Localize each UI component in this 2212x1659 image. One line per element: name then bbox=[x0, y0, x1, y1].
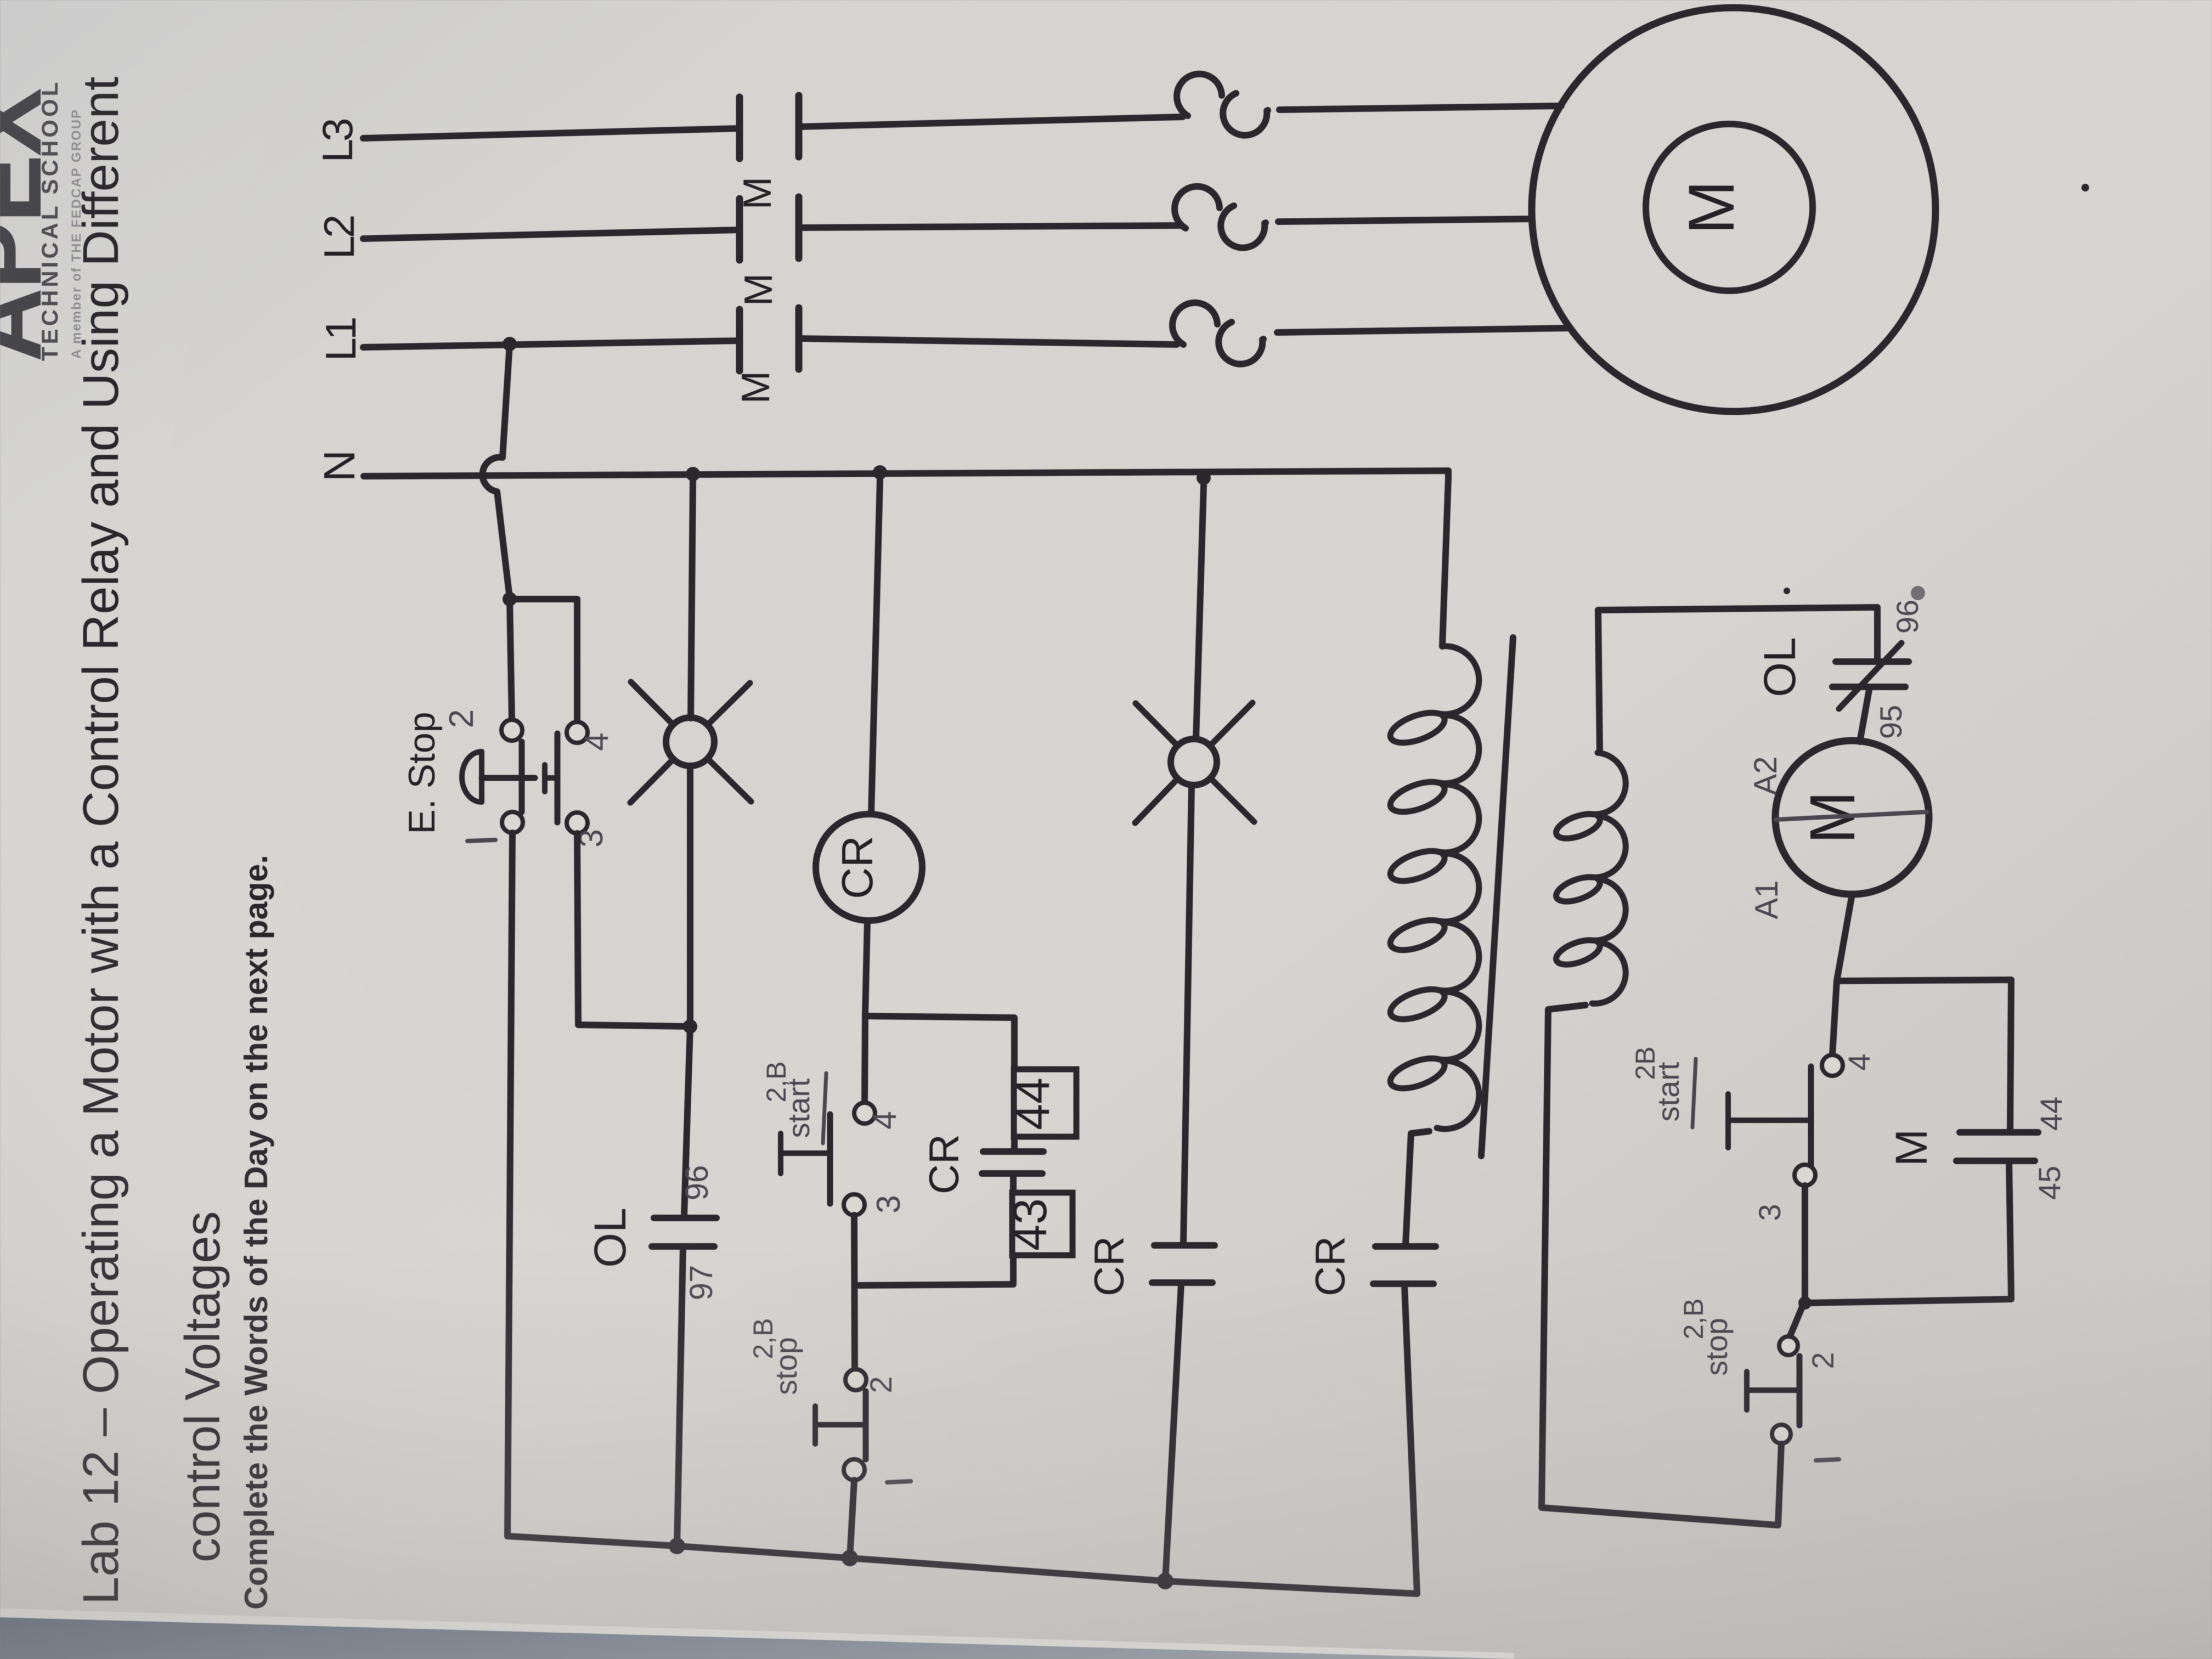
wire pilot2 to CR contact 2 bbox=[1183, 785, 1192, 1244]
motor M bbox=[1532, 8, 1936, 411]
contactor contact M (L2 pole) bbox=[736, 199, 743, 260]
auxiliary contact M (seal-in) bbox=[1960, 1129, 2038, 1136]
wire Start 2B to J4 bbox=[1802, 1186, 1808, 1303]
wire CR3 to bottom rail corner bbox=[1404, 1285, 1417, 1594]
wire L1 phase line bbox=[363, 341, 740, 347]
contactor coil M bbox=[1775, 741, 1929, 894]
stray pen stroke through M coil bbox=[1776, 812, 1927, 820]
table corner bbox=[0, 1613, 1514, 1657]
wire T1 to Start B bbox=[865, 1016, 865, 1103]
wire L2 phase line bbox=[363, 230, 740, 239]
terminal block 43 bbox=[1012, 1193, 1073, 1255]
node N tap 1 bbox=[686, 467, 700, 481]
node N tap 3 bbox=[1197, 471, 1211, 485]
ink dot 2 bbox=[1784, 588, 1790, 594]
contactor contact M (L1 pole) bbox=[736, 309, 743, 371]
wire branch J1 to Start A bbox=[510, 599, 577, 721]
pushbutton Start 2B (NO) bbox=[1822, 1055, 1843, 1076]
terminal block 44 bbox=[1014, 1069, 1076, 1137]
pilot light 2 (circle with rays) bbox=[1171, 739, 1217, 785]
wire N right end down bbox=[1442, 471, 1448, 646]
pushbutton Start B (NO) bbox=[854, 1103, 875, 1124]
pilot light (circle with rays) bbox=[666, 718, 714, 766]
relay contact CR 3 bbox=[1375, 1243, 1436, 1250]
wire pilot to J2 bbox=[687, 766, 693, 1026]
pushbutton Stop 2B (NC) bbox=[1779, 1336, 1798, 1355]
wire N rail bbox=[364, 471, 1448, 476]
relay contact CR (seal-in, NO) bbox=[983, 1148, 1043, 1155]
wire J4 to Stop 2B bbox=[1790, 1303, 1804, 1336]
pin 1 (handwritten) bbox=[887, 1481, 911, 1482]
wire primary to CR contact 3 bbox=[1406, 1131, 1429, 1245]
wire N to pilot light bbox=[691, 481, 693, 718]
smudge dot bbox=[1911, 586, 1925, 600]
OL heater L2 bbox=[1175, 187, 1266, 248]
wire OL to bottom rail bbox=[677, 1248, 683, 1546]
wire T1 branch to seal-in bbox=[865, 1016, 1014, 1069]
wire 44 to CR contact bbox=[1011, 1137, 1018, 1152]
pushbutton Start A (NO) bbox=[567, 722, 588, 743]
overload contact OL (power side, with slash) bbox=[1836, 658, 1909, 665]
pin 1 (handwritten) bbox=[1816, 1459, 1839, 1460]
node L1 tap junction bbox=[503, 337, 517, 351]
wire CR2 to bottom rail bbox=[1165, 1284, 1181, 1581]
wire J2 to OL contact bbox=[684, 1026, 690, 1216]
wire M aux to J4 bbox=[1806, 1161, 2011, 1303]
wire N to pilot 2 bbox=[1196, 485, 1204, 739]
node D2 bbox=[842, 1550, 858, 1566]
contactor contact M (L3 pole) bbox=[736, 97, 743, 159]
OL heater L1 bbox=[1172, 303, 1263, 364]
wire feed from L1 with hop over N bbox=[483, 344, 510, 598]
wire secondary top lead bbox=[1598, 607, 1877, 753]
OL heater L3 bbox=[1177, 74, 1268, 136]
wire Stop 2B to return bbox=[1778, 1444, 1781, 1525]
node N tap 2 bbox=[873, 465, 887, 479]
wire CR coil to T1 bbox=[865, 921, 867, 1015]
wire T2 branch to M aux bbox=[1837, 980, 2011, 1131]
transformer secondary coil bbox=[1556, 753, 1626, 1003]
transformer primary coil bbox=[1390, 646, 1479, 1129]
node J2 bbox=[683, 1019, 697, 1034]
wire OL to M coil bbox=[1860, 687, 1870, 742]
ink dot 1 bbox=[2081, 184, 2089, 191]
wire L3 phase line bbox=[363, 128, 740, 138]
pushbutton Stop B (NC) bbox=[845, 1369, 866, 1390]
node J4 bbox=[1798, 1296, 1812, 1310]
wire bottom rail bbox=[507, 1536, 1417, 1594]
node feed junction J1 bbox=[503, 592, 517, 606]
wire secondary bottom lead bbox=[1542, 1005, 1778, 1525]
wire Start B to Stop B bbox=[854, 1215, 855, 1369]
wire T2 to Start 2B bbox=[1832, 981, 1837, 1055]
pushbutton E.Stop (NC mushroom) bbox=[510, 599, 512, 720]
wire 43 to J3 bbox=[856, 1255, 1013, 1285]
wire M coil to T2 bbox=[1837, 894, 1852, 981]
wire E.Stop to bottom rail bbox=[507, 833, 512, 1536]
wire Stop B to bottom rail bbox=[850, 1480, 854, 1558]
relay coil CR bbox=[816, 814, 922, 921]
wire N to CR coil bbox=[871, 479, 880, 814]
node D1 bbox=[669, 1538, 685, 1554]
node D3 bbox=[1157, 1573, 1173, 1589]
relay contact CR 2 bbox=[1154, 1242, 1215, 1249]
pin 1 (handwritten) bbox=[467, 840, 495, 841]
transformer core bbox=[1481, 637, 1513, 1156]
overload contact OL (control) bbox=[654, 1215, 716, 1221]
wire feed to OL power contact bbox=[1874, 607, 1881, 662]
wire CR contact to 43 bbox=[1010, 1173, 1017, 1193]
wire Start A to pilot line junction bbox=[577, 833, 690, 1026]
